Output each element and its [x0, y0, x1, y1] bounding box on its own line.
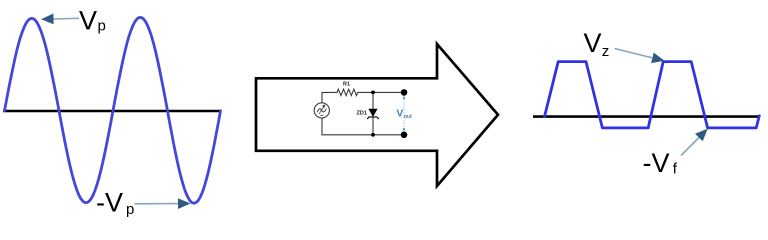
left sine wave: [5, 18, 221, 204]
-Vp callout arrow: [135, 203, 181, 205]
svg-text:R1: R1: [343, 82, 350, 88]
Vp arrowhead: [41, 14, 54, 25]
svg-text:V: V: [79, 6, 97, 36]
left waveform axis: [3, 110, 220, 113]
output node top: [401, 89, 408, 96]
zener diode ZD1: [368, 109, 377, 117]
svg-text:V: V: [584, 28, 602, 58]
svg-text:out: out: [404, 114, 412, 120]
svg-text:p: p: [126, 201, 134, 218]
circuit: wires: [322, 89, 404, 135]
big block arrow: [256, 44, 498, 186]
svg-text:-V: -V: [96, 188, 123, 218]
-Vf arrowhead: [695, 129, 708, 142]
output node bottom: [401, 132, 408, 139]
AC source V1: [314, 103, 329, 118]
wire: source to top rail with resistor R1 zigzag: [322, 89, 404, 103]
svg-text:-V: -V: [643, 148, 670, 178]
Vout measurement line: [403, 97, 405, 131]
wire: source to bottom rail: [322, 118, 404, 135]
Vp callout arrow: [52, 17, 79, 20]
right clipped waveform trace: [545, 62, 760, 128]
right waveform axis: [533, 115, 760, 118]
-Vf callout arrow: [681, 138, 699, 156]
svg-text:V: V: [397, 109, 404, 120]
junction node bottom: [371, 133, 375, 137]
svg-text:ZD1: ZD1: [357, 111, 367, 117]
junction node top: [371, 91, 375, 95]
Vz callout arrow: [615, 49, 653, 58]
svg-text:p: p: [98, 18, 106, 35]
wire: zener branch: [372, 92, 374, 134]
-Vp arrowhead: [178, 198, 191, 209]
svg-text:z: z: [602, 43, 610, 60]
svg-text:f: f: [673, 161, 678, 178]
Vz arrowhead: [651, 53, 664, 64]
